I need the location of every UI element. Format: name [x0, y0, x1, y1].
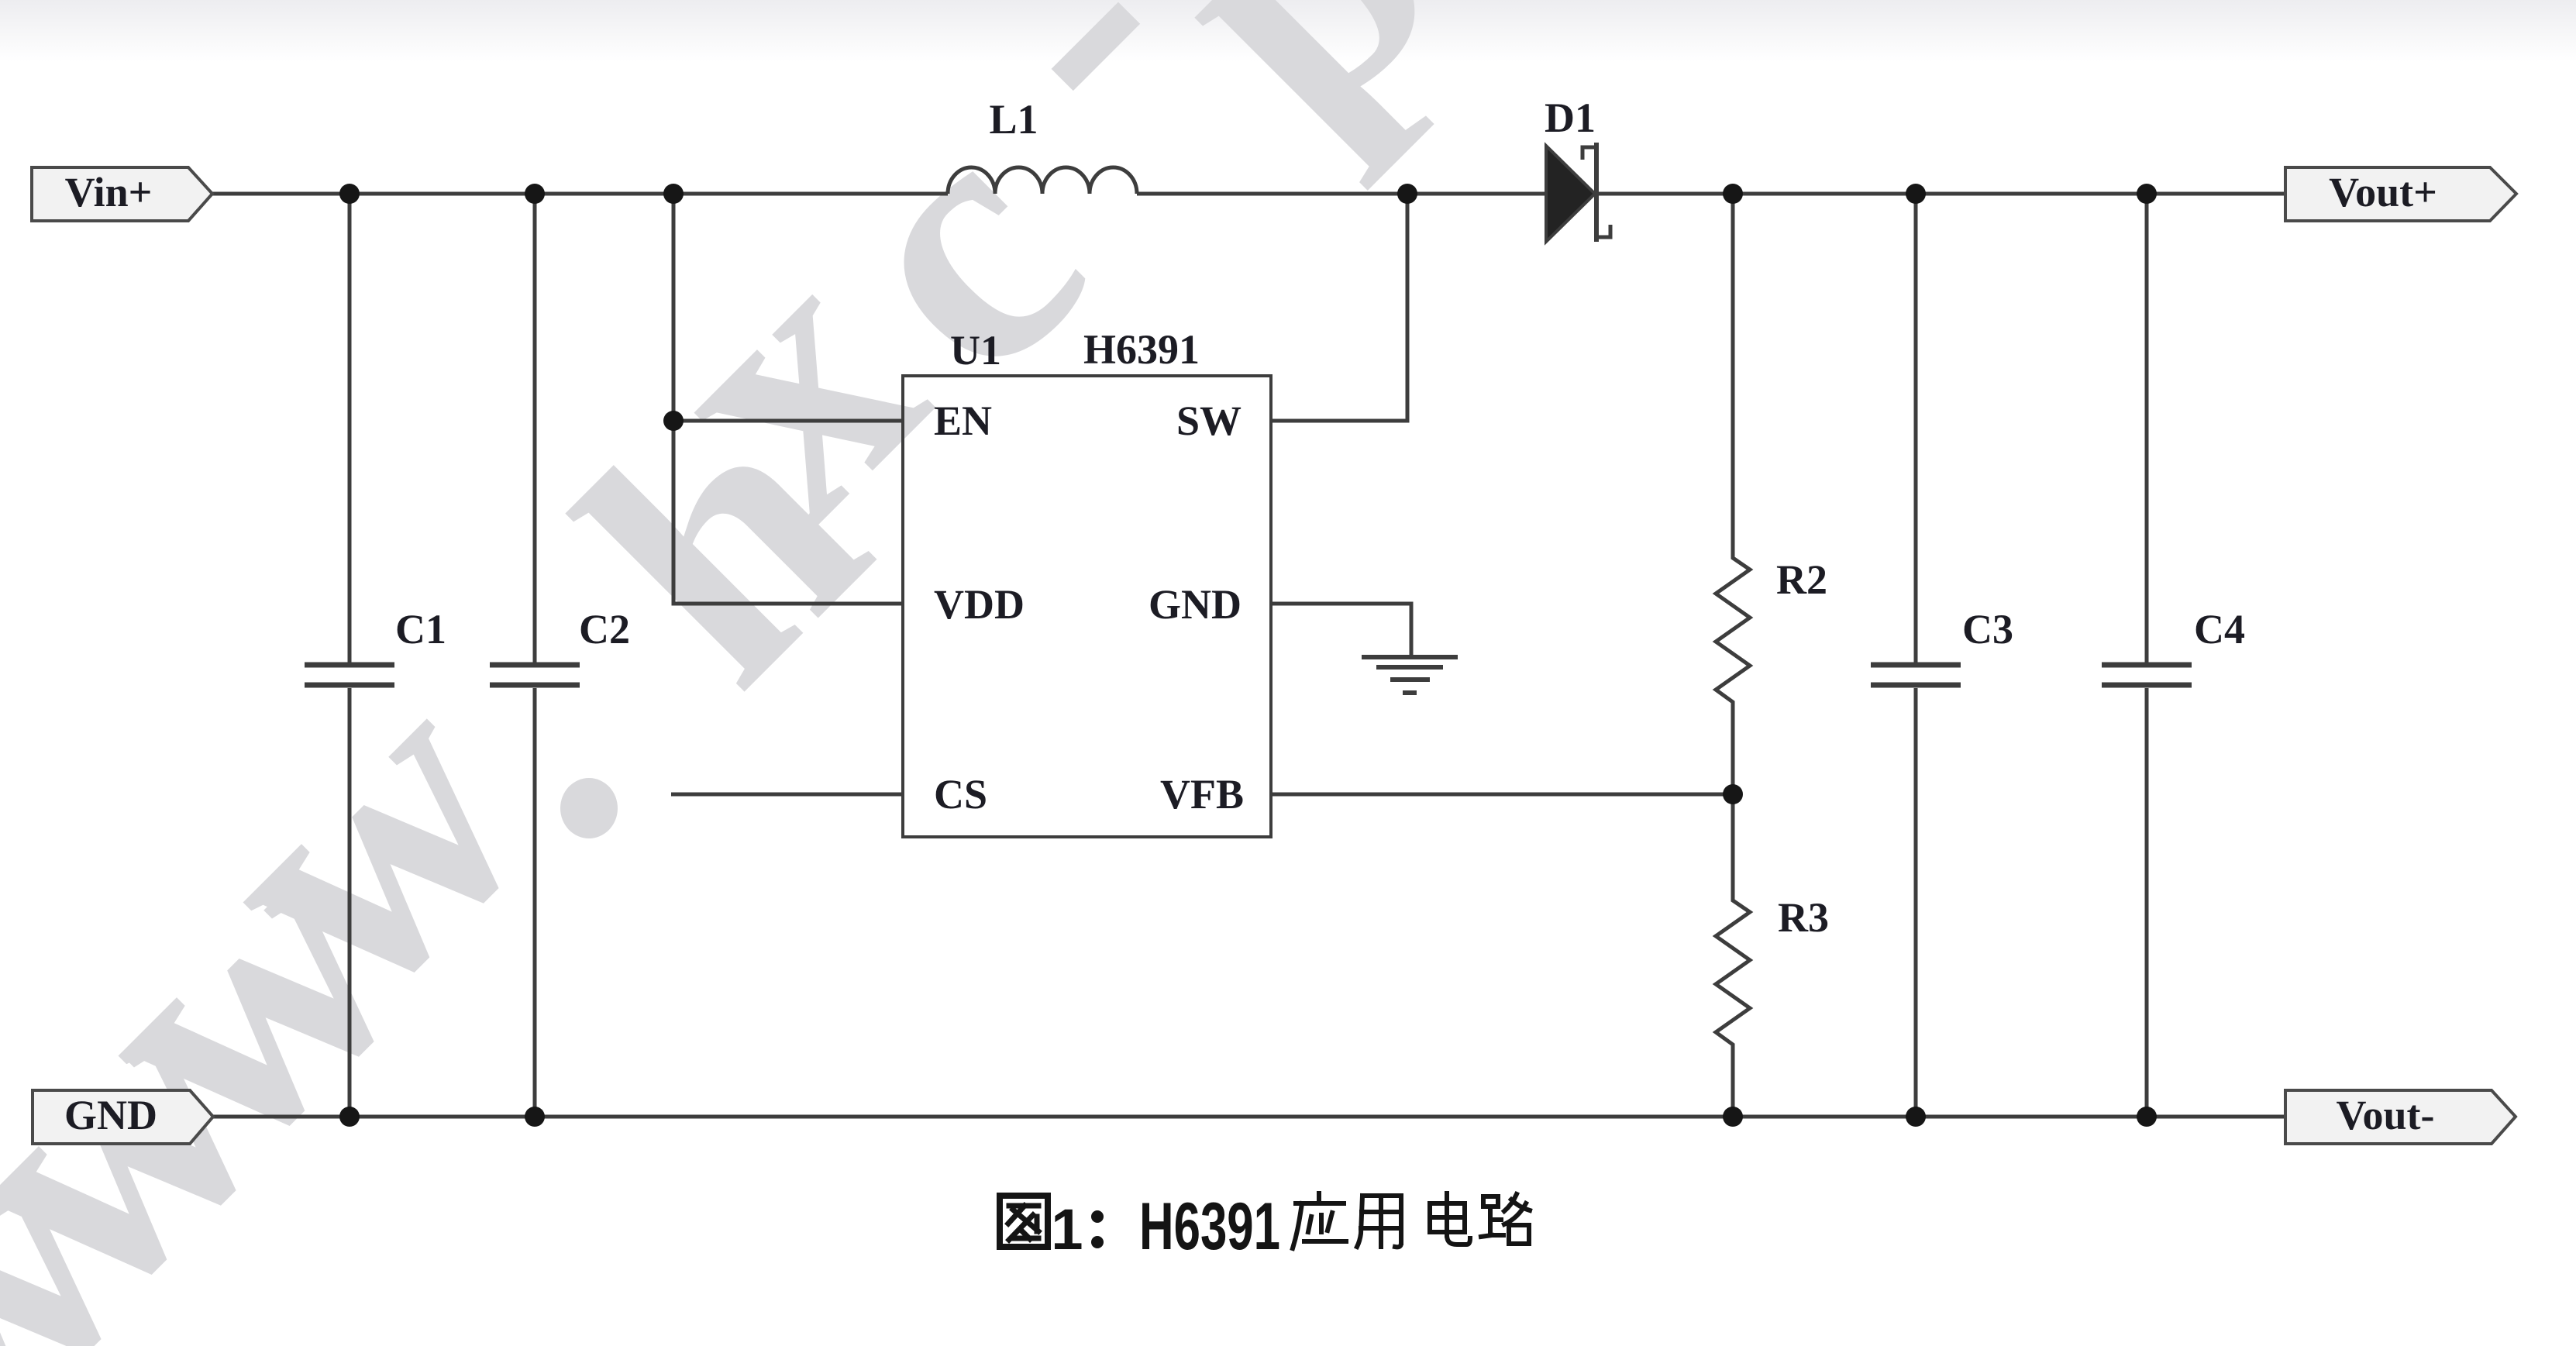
resistor R3	[1716, 794, 1750, 1117]
hanzi 图	[1000, 1196, 1048, 1247]
svg-text:VFB: VFB	[1160, 771, 1244, 818]
junction VFB / R2-R3 node	[1723, 784, 1743, 804]
capacitor C1	[348, 194, 352, 1117]
node GND flag	[33, 1090, 213, 1144]
node Vin+	[32, 167, 212, 221]
capacitor C4	[2145, 194, 2149, 1117]
svg-text:R3: R3	[1778, 894, 1829, 941]
svg-text:D1: D1	[1545, 95, 1596, 141]
diode D1	[1546, 146, 1595, 242]
node Vout+	[2285, 167, 2516, 221]
ground	[1362, 655, 1458, 659]
caption 图1：H6391应用电路	[1000, 1189, 1530, 1264]
resistor R2	[1716, 194, 1750, 794]
op-amp ic U1 box	[903, 376, 1271, 837]
hanzi 用	[1357, 1196, 1401, 1247]
junction EN/VDD branch top rail	[663, 184, 684, 204]
wire bottom rail	[213, 1115, 2285, 1119]
svg-text:Vout-: Vout-	[2336, 1092, 2434, 1138]
svg-text:1: 1	[1051, 1197, 1083, 1262]
svg-text:CS: CS	[934, 771, 987, 818]
junction R3 bottom rail	[1723, 1107, 1743, 1127]
junction C4 top rail	[2137, 184, 2157, 204]
svg-text:SW: SW	[1176, 398, 1242, 444]
node Vout-	[2285, 1090, 2516, 1144]
svg-text:U1: U1	[950, 327, 1001, 374]
svg-text:C3: C3	[1962, 606, 2013, 652]
junction C1 top rail	[339, 184, 360, 204]
junction C3 bottom rail	[1906, 1107, 1926, 1127]
svg-text:VDD: VDD	[934, 581, 1025, 628]
wire VFB	[1271, 793, 1733, 797]
svg-text:R2: R2	[1776, 556, 1827, 603]
junction SW node top rail	[1397, 184, 1417, 204]
svg-text:C4: C4	[2194, 606, 2245, 652]
wire top rail	[212, 192, 2285, 196]
digit 1 and colon	[1051, 1189, 1280, 1264]
hanzi 应	[1293, 1193, 1346, 1248]
wire SW to node	[1271, 194, 1407, 421]
svg-text:H6391: H6391	[1139, 1189, 1280, 1264]
wire CS stub	[671, 793, 903, 797]
svg-text:C2: C2	[579, 606, 630, 652]
inductor L1	[948, 167, 1137, 194]
hanzi 路	[1481, 1194, 1530, 1244]
svg-text:C1: C1	[395, 606, 446, 652]
svg-text:EN: EN	[934, 398, 992, 444]
junction C4 bottom rail	[2137, 1107, 2157, 1127]
wire EN/VDD branch	[673, 194, 903, 604]
hanzi 电	[1430, 1193, 1470, 1244]
junction C2 bottom rail	[525, 1107, 545, 1127]
junction R2 top rail	[1723, 184, 1743, 204]
svg-text:GND: GND	[64, 1092, 157, 1138]
capacitor C2	[533, 194, 537, 1117]
capacitor C3	[1914, 194, 1918, 1117]
watermark www.hxc-p	[0, 0, 1509, 1346]
junction C3 top rail	[1906, 184, 1926, 204]
svg-text:L1: L1	[989, 96, 1038, 143]
svg-text:Vin+: Vin+	[65, 169, 153, 215]
junction C1 bottom rail	[339, 1107, 360, 1127]
svg-text:GND: GND	[1149, 581, 1242, 628]
svg-text:Vout+: Vout+	[2329, 169, 2437, 215]
svg-text:H6391: H6391	[1083, 326, 1200, 373]
junction EN pin node	[663, 411, 684, 431]
junction C2 top rail	[525, 184, 545, 204]
wire GND pin	[1271, 604, 1411, 657]
